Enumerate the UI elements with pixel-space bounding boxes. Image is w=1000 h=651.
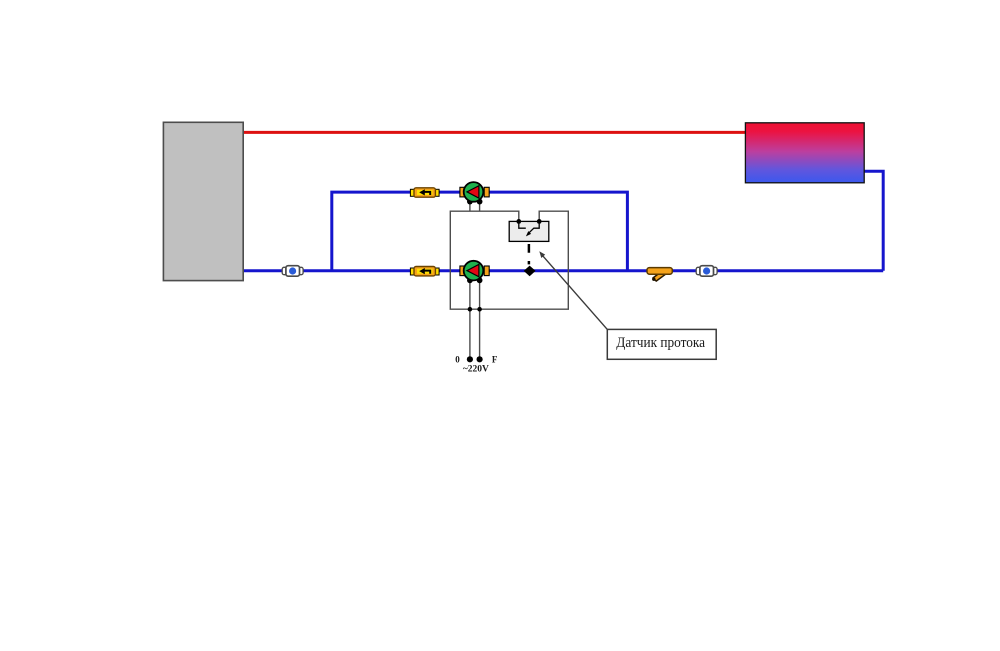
wire: blue main bottom pipe xyxy=(243,269,883,272)
drain tap xyxy=(647,268,672,282)
relay switch arrowhead xyxy=(526,231,531,236)
pump bottom xyxy=(460,261,489,283)
wire: top pump leads to box xyxy=(470,202,480,212)
svg-text:Датчик протока: Датчик протока xyxy=(616,334,705,351)
wire: blue upper branch with risers xyxy=(332,192,628,271)
svg-text:~220V: ~220V xyxy=(463,364,489,374)
callout arrow line xyxy=(541,254,607,329)
flow sensor paddle (diamond) xyxy=(524,266,536,277)
label box Датчик протока xyxy=(607,329,716,359)
radiator xyxy=(745,123,864,183)
junction dots on box bottom edge xyxy=(468,307,473,312)
relay terminal dots xyxy=(516,219,521,224)
ball valve right xyxy=(696,266,717,277)
ball valve left xyxy=(282,266,303,277)
dashed actuation line xyxy=(528,244,531,264)
check valve bottom xyxy=(410,267,439,276)
check valve top xyxy=(410,188,439,197)
svg-text:0: 0 xyxy=(455,354,460,364)
control box wiring loop xyxy=(450,211,568,309)
220V terminal dots xyxy=(467,356,473,362)
svg-text:F: F xyxy=(492,354,498,364)
pump top xyxy=(460,182,489,204)
wire: bottom pump leads to 220V terminals xyxy=(470,280,480,359)
callout arrowhead xyxy=(539,251,545,258)
relay: flow switch body xyxy=(509,221,549,241)
relay switch contacts xyxy=(519,221,526,228)
wire: blue return pipe radiator right side down xyxy=(864,171,884,270)
wire: red supply pipe from boiler to radiator xyxy=(243,131,746,134)
boiler xyxy=(163,122,243,280)
